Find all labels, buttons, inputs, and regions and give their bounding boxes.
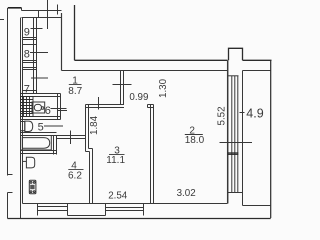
- wire: leader room 9: [31, 28, 43, 30]
- wire: neighbour top wall inner line: [22, 17, 62, 19]
- capacitor C1: balcony window triple lines: [232, 76, 238, 193]
- node A: left dimension line upper: [7, 8, 9, 176]
- svg-text:0.99: 0.99: [129, 92, 148, 103]
- wire: bath block right wall upper: [58, 94, 61, 120]
- wire: bottom wall inner face: [23, 203, 228, 205]
- wire: left dim top tick: [0, 19, 4, 21]
- wire: balcony right outer wall: [8, 60, 271, 218]
- wire: room 7 bottom wall: [23, 90, 37, 92]
- wire: wall jog: [86, 149, 93, 152]
- svg-text:6.2: 6.2: [68, 170, 82, 181]
- wire: balcony top wall inner: [243, 70, 271, 72]
- svg-text:7: 7: [24, 84, 30, 96]
- wire: balcony inner left face: [242, 71, 244, 206]
- wire: kitchen top wall: [57, 136, 86, 139]
- capacitor C3: room3 window: [106, 204, 144, 216]
- wire: bathroom door tick: [57, 110, 67, 112]
- svg-text:8: 8: [24, 49, 30, 61]
- wire: left outer wall of block: [20, 18, 22, 219]
- capacitor C2: kitchen window: [38, 204, 68, 216]
- wire: balcony door tick: [220, 142, 253, 144]
- wire: hall partition wall: [121, 71, 124, 105]
- svg-text:11.1: 11.1: [106, 155, 125, 166]
- wire: neighbour top outer wall cap: [8, 7, 22, 9]
- svg-text:4.9: 4.9: [246, 106, 263, 120]
- wire: balcony window bottom cap: [228, 192, 243, 194]
- wire: 5.52 dim tick: [240, 112, 245, 114]
- wire: room 9 bottom wall: [23, 38, 37, 45]
- wire: top wall outer face: [75, 59, 228, 61]
- wire: room3 door tick: [98, 97, 100, 110]
- svg-text:1.84: 1.84: [89, 115, 100, 135]
- resistor R1: pier box under wall: [68, 204, 106, 216]
- wire: fraction bar room1: [69, 84, 82, 86]
- svg-text:9: 9: [24, 27, 30, 39]
- diode D3: bathtub: [21, 136, 52, 150]
- wire: room3 top wall: [86, 105, 125, 108]
- svg-text:5: 5: [38, 122, 44, 134]
- wire: vertical tick x47: [47, 0, 49, 29]
- svg-text:8.7: 8.7: [68, 86, 82, 97]
- wire: bath room right wall: [54, 136, 57, 155]
- wire: balcony window transom band: [228, 153, 239, 154]
- wire: fraction bar room2: [185, 134, 203, 136]
- wire: top wall inner face: [62, 70, 228, 72]
- wire: fraction bar room4: [68, 169, 83, 171]
- svg-text:3.02: 3.02: [177, 188, 196, 199]
- wire: balcony floor bottom: [243, 205, 271, 207]
- wire: step down at x21.5: [21, 8, 23, 11]
- wire: balcony top wall outer: [243, 59, 272, 61]
- transistor Q1: top-right step block: [229, 48, 243, 60]
- wire: bath block bottom wall: [21, 151, 57, 154]
- wire: stair corridor right wall x61: [61, 13, 63, 71]
- wire: short wall x38.5 in top wall: [38, 11, 40, 18]
- wire: left dim bracket B: [8, 193, 13, 219]
- diode D2: toilet: [21, 121, 33, 131]
- wire: wall between 6 and 5: [21, 117, 61, 120]
- svg-text:5.52: 5.52: [217, 106, 228, 125]
- svg-text:1.30: 1.30: [158, 78, 169, 98]
- wire: leader room 5: [44, 125, 63, 127]
- wire: room2 left wall top cap: [148, 105, 154, 108]
- wire: rooms column right wall: [34, 18, 37, 94]
- wire: left dim bracket A bottom tick: [8, 174, 13, 176]
- wire: leader room 6: [51, 108, 67, 110]
- resistor R2: kitchen door leaf symbol: [23, 157, 35, 168]
- svg-text:6: 6: [45, 105, 51, 117]
- wire: main unit top-left vertical wall: [74, 5, 76, 60]
- wire: leader room 8: [30, 52, 48, 54]
- wire: room 8 bottom wall: [23, 61, 37, 70]
- wire: leader room 7: [31, 77, 48, 79]
- node: room labels: [24, 27, 205, 182]
- wire: balcony window top cap: [228, 75, 239, 77]
- wire: bath block top wall: [21, 94, 61, 97]
- wire: x57 end tick: [57, 5, 59, 15]
- wire: kitchen door tick: [70, 131, 72, 145]
- wire: neighbour top wall second line: [22, 10, 62, 12]
- wire: hall partition door tick: [113, 84, 132, 86]
- wire: fraction bar room3: [109, 154, 125, 156]
- wire: room3 left wall upper: [86, 105, 89, 152]
- svg-text:18.0: 18.0: [185, 135, 205, 146]
- wire: wall between 5 and bath: [21, 133, 57, 136]
- diode D1: sink in room 6: [32, 102, 45, 113]
- wire: left inner wall line: [22, 18, 24, 204]
- resistor R3: stove symbol: [29, 180, 36, 194]
- wire: wall between kitchen and room3 lower: [90, 149, 93, 204]
- wire: room2 left wall: [151, 105, 154, 204]
- capacitor C0: hatched shaft wall: [21, 97, 34, 117]
- wire: room2 right wall: [227, 60, 229, 203]
- svg-text:2.54: 2.54: [108, 191, 128, 202]
